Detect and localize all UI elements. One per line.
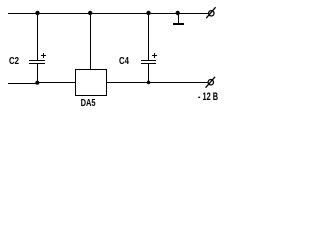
svg-text:C4: C4: [119, 56, 129, 67]
svg-text:C2: C2: [9, 56, 19, 67]
svg-text:DA5: DA5: [81, 98, 96, 109]
svg-text:- 12 В: - 12 В: [198, 91, 218, 103]
